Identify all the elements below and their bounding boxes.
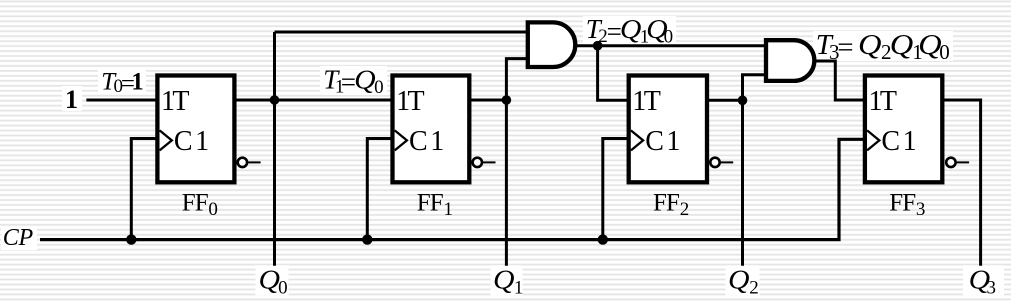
- svg-text:T: T: [172, 86, 189, 117]
- node label Q0: [259, 265, 288, 299]
- junction node Q0: [270, 95, 280, 105]
- svg-text:2: 2: [680, 199, 690, 220]
- inversion bubble FF3: [946, 158, 969, 167]
- wire FF1 Q output to node Q1: [469, 99, 506, 102]
- wire CP tap to FF0 C1: [131, 139, 157, 240]
- svg-text:3: 3: [916, 199, 926, 220]
- label FF0: [182, 190, 218, 221]
- junction CP tap FF0: [126, 234, 136, 244]
- junction node T2: [593, 41, 603, 51]
- node label T1=Q0: [323, 64, 383, 98]
- node label T2=Q1Q0: [586, 14, 673, 48]
- svg-text:T: T: [880, 86, 897, 117]
- wire FF0 Q output to FF1 T input (node Q0): [234, 99, 392, 102]
- wire CP tap to FF1 C1: [367, 139, 392, 240]
- svg-text:F: F: [653, 190, 667, 217]
- svg-text:Q: Q: [259, 265, 281, 295]
- svg-text:C: C: [3, 225, 20, 251]
- svg-text:F: F: [417, 190, 431, 217]
- svg-text:1: 1: [444, 199, 454, 220]
- svg-text:1: 1: [430, 126, 444, 157]
- svg-text:1: 1: [514, 278, 524, 299]
- svg-text:F: F: [889, 190, 903, 217]
- node label Q1: [493, 265, 523, 299]
- clock triangle FF3: [867, 130, 879, 150]
- svg-text:F: F: [902, 190, 916, 217]
- svg-text:F: F: [430, 190, 444, 217]
- svg-text:1: 1: [131, 68, 144, 95]
- svg-text:F: F: [195, 190, 209, 217]
- node label Q3: [969, 265, 996, 299]
- label FF2: [653, 190, 689, 221]
- svg-text:0: 0: [278, 278, 288, 299]
- svg-text:C: C: [881, 126, 900, 157]
- wire Q0 top rail to AND gate U1 top input: [275, 31, 528, 34]
- flip-flop FF0 box: [157, 76, 234, 183]
- clock triangle FF2: [631, 130, 643, 150]
- svg-text:T: T: [644, 86, 661, 117]
- clock triangle FF1: [395, 130, 407, 150]
- svg-text:0: 0: [374, 77, 384, 98]
- flip-flop FF3 box: [865, 76, 942, 183]
- inversion bubble FF2: [710, 158, 733, 167]
- svg-text:C: C: [645, 126, 664, 157]
- svg-text:P: P: [18, 225, 34, 251]
- svg-text:Q: Q: [858, 29, 882, 61]
- flip-flop FF2 box: [629, 76, 707, 183]
- svg-text:0: 0: [664, 27, 674, 48]
- node label Q2: [728, 265, 759, 299]
- inversion bubble FF0: [238, 158, 261, 167]
- svg-text:Q: Q: [728, 265, 750, 295]
- svg-text:C: C: [409, 126, 428, 157]
- svg-text:0: 0: [208, 199, 218, 220]
- label FF3: [889, 190, 925, 221]
- wire CP tap to FF2 C1: [603, 139, 629, 240]
- wire Q2 up to AND gate U2 bottom input: [743, 75, 767, 101]
- wire Q0 vertical riser/dropper: [273, 32, 276, 266]
- svg-text:3: 3: [987, 278, 997, 299]
- clock triangle FF0: [160, 130, 172, 150]
- svg-text:Q: Q: [918, 29, 942, 61]
- AND gate U1 (T2 = Q1 Q0): [528, 22, 576, 67]
- svg-text:Q: Q: [620, 14, 642, 44]
- svg-text:Q: Q: [354, 64, 376, 94]
- wire T2 down to FF2 T input: [598, 46, 629, 101]
- svg-text:2: 2: [749, 278, 759, 299]
- svg-text:=: =: [837, 32, 853, 64]
- node label T3=Q2Q1Q0: [816, 29, 950, 64]
- wire AND U2 output T3 to FF3 T input: [810, 61, 865, 100]
- svg-text:1: 1: [903, 126, 917, 157]
- svg-text:0: 0: [939, 40, 950, 64]
- inversion bubble FF1: [473, 158, 496, 167]
- wire FF3 Q output down to node Q3: [942, 100, 980, 266]
- svg-text:C: C: [174, 126, 193, 157]
- wire input 1 to FF0 T input: [86, 99, 157, 102]
- AND gate U2 (T3 = Q2 Q1 Q0): [766, 40, 814, 81]
- junction CP tap FF1: [362, 234, 372, 244]
- wire AND U1 output T2 rail to AND gate U2 top input: [572, 44, 766, 47]
- flip-flop FF1 box: [393, 76, 470, 183]
- wire Q1 down to label: [505, 100, 508, 266]
- svg-text:Q: Q: [890, 29, 914, 61]
- svg-text:1: 1: [195, 126, 209, 157]
- label FF1: [417, 190, 453, 221]
- node label CP: [3, 225, 34, 251]
- junction node Q1: [502, 95, 512, 105]
- wire CP clock rail up to FF3 C1 input: [40, 139, 865, 239]
- svg-text:F: F: [182, 190, 196, 217]
- svg-text:1: 1: [65, 85, 78, 114]
- svg-text:T: T: [408, 86, 425, 117]
- wire Q2 down to label: [741, 100, 744, 265]
- wire FF2 Q output to node Q2: [707, 99, 743, 102]
- node label T0=1: [101, 68, 143, 97]
- junction node Q2: [738, 96, 748, 106]
- svg-text:F: F: [666, 190, 680, 217]
- svg-text:Q: Q: [493, 265, 515, 295]
- wire Q1 up to AND gate U1 bottom input: [506, 59, 527, 100]
- junction CP tap FF2: [598, 234, 608, 244]
- svg-text:1: 1: [666, 126, 680, 157]
